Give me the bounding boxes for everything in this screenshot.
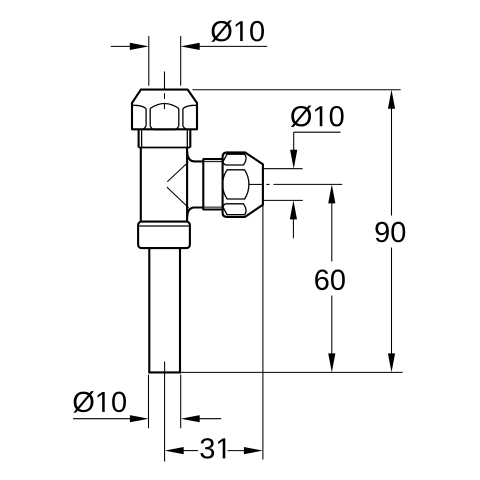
bottom collar: rounded outline xyxy=(138,222,190,249)
dimension 90: label xyxy=(375,222,405,243)
horizontal centerline of outlet xyxy=(249,183,263,185)
outlet nut bottom facet band xyxy=(223,204,246,215)
outlet pipe left wall xyxy=(148,248,150,372)
threaded collar below nut: outline xyxy=(138,130,140,148)
dimension 90: top extension line xyxy=(193,89,401,91)
top hex nut facet boundary pair left xyxy=(145,109,147,126)
threaded collar inner line right xyxy=(186,131,188,147)
body chamfer diagonal upper xyxy=(167,162,188,182)
outlet flange ring: left face xyxy=(202,158,204,210)
vertical centerline (top) xyxy=(164,72,166,89)
outlet hex nut outline xyxy=(223,152,263,217)
top hex nut dome bottom band xyxy=(150,126,179,130)
dimension D10 outlet: label xyxy=(291,105,344,127)
body chamfer diagonal lower xyxy=(167,187,189,208)
dimension D10 top: right extension line xyxy=(180,36,182,86)
vertical centerline (bottom) xyxy=(164,362,166,462)
outlet bottom line with fillet xyxy=(187,208,203,218)
dimension D10 top: label xyxy=(211,20,264,42)
top hex nut facet boundary pair right xyxy=(178,109,180,126)
dimension D10 outlet: leader down with arrow xyxy=(293,132,295,151)
top hex nut left facet arcs xyxy=(132,105,146,108)
outlet top line with fillet xyxy=(187,151,203,161)
dimension 90: lower segment with arrow xyxy=(391,248,393,356)
outlet pipe bottom edge xyxy=(148,371,181,373)
top hex nut right facet arcs xyxy=(183,105,197,108)
dimension D10 top: right leader with arrow xyxy=(198,45,267,47)
dimension 60: upper arrow at centerline xyxy=(328,184,335,203)
threaded collar inner line left xyxy=(141,131,143,147)
dimension D10 outlet: bottom extension line xyxy=(263,199,303,201)
dimension D10 top: left leader with arrow xyxy=(111,45,131,47)
dimension 31: left arrow and segment xyxy=(165,447,184,454)
outlet nut middle facet barrel xyxy=(223,170,249,199)
outlet flange ring: top and bottom edges xyxy=(203,158,222,160)
bottom extension line (pipe end, to the right) xyxy=(181,371,403,373)
valve body left wall xyxy=(140,147,142,221)
dimension 31: right extension line xyxy=(262,205,264,460)
dimension 31: label xyxy=(200,438,225,459)
dimension D10 bottom: right leader with arrow xyxy=(181,415,200,422)
dimension D10 outlet: top extension line xyxy=(263,168,303,170)
dimension D10 bottom: right extension line xyxy=(180,375,182,429)
dimension D10 top: left extension line xyxy=(148,36,150,86)
dimension D10 bottom: left extension line xyxy=(148,375,150,429)
dimension D10 outlet: leader up with arrow xyxy=(290,200,297,219)
dimension D10 bottom: left leader with arrow xyxy=(73,418,131,420)
top hex nut outline xyxy=(132,90,197,130)
dimension 60: lower segment with arrow xyxy=(331,296,333,356)
outlet nut top facet band xyxy=(223,154,246,165)
valve body right wall xyxy=(186,147,188,221)
outlet pipe right wall xyxy=(179,248,181,372)
dimension D10 outlet: shelf under label xyxy=(294,131,341,133)
dimension 60: label xyxy=(315,270,345,291)
outlet flange ring: inner lines xyxy=(204,161,222,163)
dimension 90: upper arrow xyxy=(388,90,395,109)
bottom collar inner line xyxy=(138,225,190,227)
top hex nut crown dome arc xyxy=(150,104,179,109)
dimension 31: right segment and arrow xyxy=(228,450,246,452)
dimension D10 bottom: label xyxy=(73,391,126,413)
